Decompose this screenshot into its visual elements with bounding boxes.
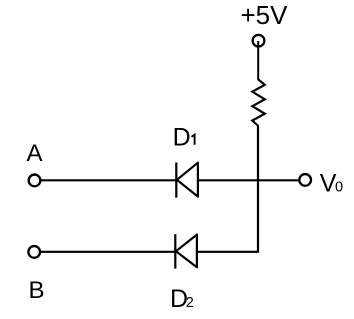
+5V supply label [241, 0, 289, 30]
wire: resistor to output node [257, 126, 259, 181]
input terminal B [28, 246, 40, 258]
output terminal V0 [299, 174, 311, 186]
svg-text:A: A [27, 140, 43, 167]
wire: diode D1 anode to output terminal [197, 179, 298, 181]
input terminal A [29, 175, 41, 187]
diode D1 cathode bar [175, 163, 177, 198]
wire: diode D2 anode to vertical branch [196, 251, 257, 253]
wire: output node down to D2 branch corner [257, 180, 259, 252]
svg-text:B: B [29, 277, 45, 304]
svg-text:+5V: +5V [241, 0, 289, 30]
svg-text:D: D [173, 124, 191, 152]
diode D2 triangle (anode) [176, 235, 197, 268]
wire: terminal B to diode D2 cathode [40, 251, 177, 253]
diode D2 label [170, 285, 194, 313]
input label A [27, 140, 43, 167]
svg-text:V0: V0 [320, 169, 343, 197]
diode D1 label [173, 124, 195, 152]
+5V supply terminal [253, 35, 265, 47]
output label V0 [320, 169, 343, 197]
diode D1 triangle (anode) [177, 163, 198, 197]
svg-text:D2: D2 [170, 285, 194, 313]
input label B [29, 277, 45, 304]
wire: terminal A to diode D1 cathode [40, 179, 177, 181]
diode D2 cathode bar [174, 234, 176, 268]
resistor (pull-up) [252, 80, 264, 127]
wire: supply terminal to resistor [257, 41, 259, 80]
